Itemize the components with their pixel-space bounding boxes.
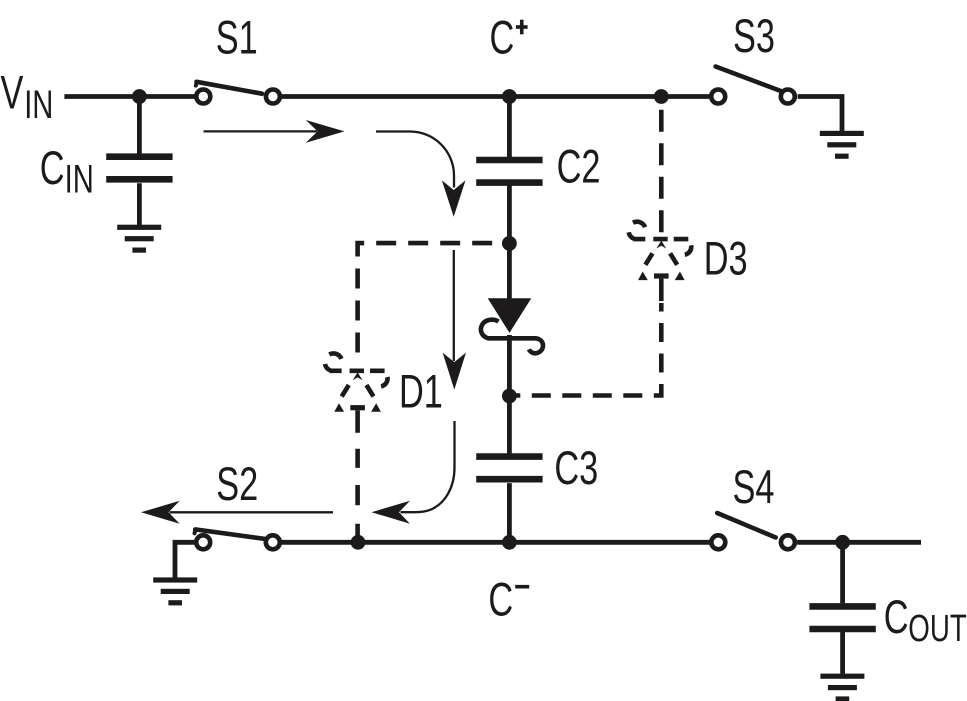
svg-text:D3: D3 (704, 232, 748, 285)
svg-text:OUT: OUT (908, 608, 967, 650)
svg-text:IN: IN (65, 157, 94, 202)
svg-text:C3: C3 (554, 442, 598, 495)
svg-text:S4: S4 (733, 461, 775, 514)
svg-text:S2: S2 (216, 458, 258, 511)
svg-text:C2: C2 (557, 140, 601, 193)
svg-text:D1: D1 (399, 365, 443, 418)
svg-text:C: C (40, 142, 65, 195)
svg-text:C: C (884, 591, 909, 644)
svg-text:IN: IN (24, 82, 53, 127)
svg-text:S3: S3 (733, 10, 775, 63)
svg-text:V: V (1, 66, 24, 119)
svg-text:C: C (490, 11, 515, 64)
svg-text:C: C (488, 573, 513, 626)
svg-text:S1: S1 (216, 11, 258, 64)
